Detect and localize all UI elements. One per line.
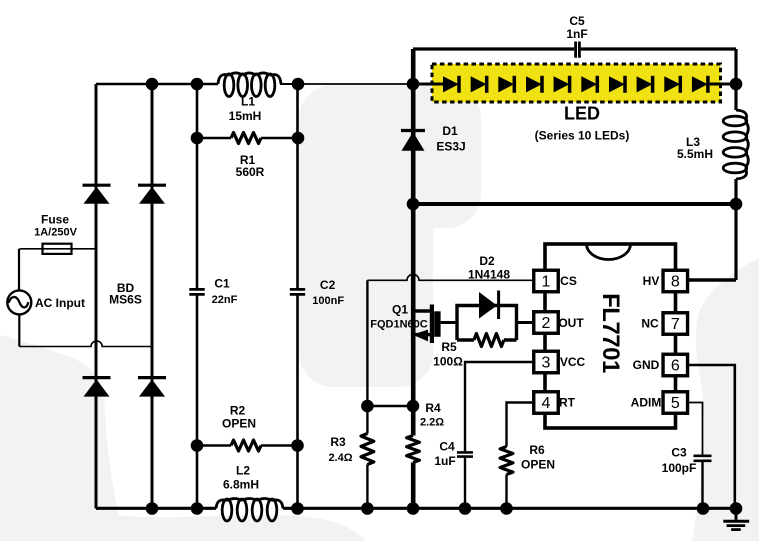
wire gate to D2/R5	[441, 321, 457, 324]
wire GND pin6 to ground	[688, 365, 735, 509]
node junction at 197,508.5	[191, 502, 204, 515]
svg-text:C2: C2	[320, 278, 336, 292]
resistor R2	[197, 444, 231, 447]
capacitor C4	[457, 452, 473, 456]
inductor L3	[723, 110, 748, 179]
svg-text:OUT: OUT	[558, 316, 584, 330]
svg-text:Q1: Q1	[392, 303, 408, 317]
node junction at 736,204	[730, 198, 743, 211]
wire mid rail y204	[413, 202, 736, 206]
svg-text:2: 2	[542, 315, 551, 332]
IC notch	[587, 244, 631, 260]
pin 4	[534, 392, 559, 414]
wire fuse line	[20, 248, 97, 250]
svg-text:D2: D2	[479, 254, 495, 268]
node junction at 506.5,508.5	[500, 502, 513, 515]
svg-text:R5: R5	[441, 340, 457, 354]
svg-text:R2: R2	[230, 404, 246, 418]
node junction at 297.5,508.5	[291, 502, 304, 515]
svg-text:1: 1	[542, 274, 551, 291]
svg-text:6: 6	[671, 358, 680, 375]
svg-text:OPEN: OPEN	[521, 458, 555, 472]
wire bridge right leg vertical	[151, 84, 154, 509]
wire OUT to pin2	[517, 321, 534, 324]
wire top rail	[96, 83, 218, 85]
node junction at 413,204	[407, 198, 420, 211]
D2/R5 parallel network box	[457, 306, 517, 341]
svg-text:VCC: VCC	[560, 355, 586, 369]
svg-text:ADIM: ADIM	[631, 396, 662, 410]
svg-text:L2: L2	[236, 464, 250, 478]
svg-text:100Ω: 100Ω	[433, 355, 463, 369]
inductor L1	[218, 73, 281, 97]
svg-text:3: 3	[542, 355, 551, 372]
svg-text:L1: L1	[241, 95, 255, 109]
svg-text:5: 5	[671, 395, 680, 412]
svg-text:AC Input: AC Input	[35, 296, 85, 310]
svg-text:C1: C1	[214, 277, 230, 291]
node junction at 736,84	[730, 78, 743, 91]
diode D2	[479, 291, 499, 320]
wire R3 to trunk	[367, 405, 413, 407]
resistor R4	[407, 436, 420, 463]
node junction at 413,84	[407, 78, 420, 91]
svg-text:NC: NC	[641, 317, 659, 331]
node junction at 152,84	[146, 78, 159, 91]
pin 7	[663, 313, 688, 335]
svg-text:RT: RT	[559, 396, 576, 410]
svg-text:D1: D1	[442, 124, 458, 138]
pin 8	[663, 270, 688, 292]
svg-text:22nF: 22nF	[212, 294, 238, 306]
capacitor C2	[290, 289, 305, 294]
LED string box	[432, 64, 721, 102]
bridge diode lower x=96.5	[83, 378, 111, 397]
wire L1 right stub	[280, 83, 298, 85]
svg-text:LED: LED	[564, 103, 600, 123]
svg-text:4: 4	[542, 395, 551, 412]
wire LED row	[413, 83, 736, 86]
svg-text:C4: C4	[439, 440, 455, 454]
wire C2 vertical	[296, 84, 299, 509]
diode D1	[401, 131, 425, 151]
svg-text:CS: CS	[560, 274, 577, 288]
node junction at 413,406	[407, 400, 420, 413]
capacitor C1	[189, 289, 204, 294]
resistor R1	[197, 137, 231, 140]
bridge diode upper x=152	[138, 185, 166, 204]
node junction at 465,508.5	[459, 502, 472, 515]
wire CS from pin1 with hop	[367, 274, 533, 280]
wire C5 top rail	[413, 47, 736, 50]
svg-text:5.5mH: 5.5mH	[677, 147, 713, 161]
ground	[723, 509, 749, 530]
node junction at 298,138	[292, 132, 305, 145]
svg-text:15mH: 15mH	[229, 109, 262, 123]
svg-text:(Series 10 LEDs): (Series 10 LEDs)	[535, 129, 630, 143]
wire bottom rail	[96, 507, 736, 510]
svg-text:2.4Ω: 2.4Ω	[328, 452, 352, 464]
node junction at 413,508.5	[407, 502, 420, 515]
LED diodes (10)	[443, 76, 708, 93]
svg-text:GND: GND	[633, 358, 660, 372]
node junction at 367.4,406	[361, 400, 374, 413]
svg-text:2.2Ω: 2.2Ω	[420, 417, 444, 429]
svg-text:100pF: 100pF	[662, 461, 697, 475]
wire RT pin4 to R6	[507, 403, 534, 447]
pin 2	[534, 312, 559, 334]
svg-text:ES3J: ES3J	[436, 140, 465, 154]
wire left vertical (bridge left leg)	[95, 84, 98, 509]
svg-text:1N4148: 1N4148	[468, 268, 510, 282]
resistor R3	[366, 280, 368, 433]
node junction at 297.5,445.5	[291, 439, 304, 452]
svg-text:R6: R6	[529, 443, 545, 457]
node junction at 298,84	[292, 78, 305, 91]
node junction at 367.4,508.5	[361, 502, 374, 515]
capacitor C3	[694, 456, 712, 461]
wire top rail to LED node	[298, 83, 413, 85]
svg-text:100nF: 100nF	[312, 295, 344, 307]
pin 3	[534, 351, 559, 373]
fuse 1A/250V	[43, 244, 72, 254]
wire VCC pin3 to C4	[465, 362, 533, 451]
svg-text:1nF: 1nF	[566, 27, 587, 41]
wire AC neutral vertical	[18, 314, 20, 346]
wire C1 vertical	[196, 84, 199, 509]
svg-text:6.8mH: 6.8mH	[223, 478, 259, 492]
svg-text:R4: R4	[425, 401, 441, 415]
pin 1	[534, 270, 559, 292]
inductor L2	[216, 499, 283, 522]
node junction at 197,138	[191, 132, 204, 145]
pin 5	[663, 392, 688, 414]
svg-text:HV: HV	[643, 274, 660, 288]
resistor R5	[474, 334, 504, 347]
op-amp U1 FL7701 body	[545, 244, 676, 428]
svg-text:560R: 560R	[236, 165, 265, 179]
wire AC neutral bottom with hop	[20, 341, 153, 347]
resistor R6	[500, 447, 513, 475]
svg-text:R3: R3	[330, 435, 346, 449]
pin 6	[663, 354, 688, 376]
svg-text:C3: C3	[671, 445, 687, 459]
bridge diode upper x=96.5	[83, 185, 111, 204]
bridge diode lower x=152	[138, 378, 166, 397]
svg-text:Fuse: Fuse	[41, 212, 69, 226]
svg-text:C5: C5	[569, 14, 585, 28]
wire AC live vertical	[18, 249, 20, 291]
svg-text:1A/250V: 1A/250V	[34, 226, 77, 238]
svg-text:MS6S: MS6S	[109, 293, 142, 307]
node junction at 736,508.5	[730, 502, 743, 515]
node junction at 703,508.5	[697, 502, 710, 515]
wire HV connection	[688, 278, 736, 281]
svg-text:OPEN: OPEN	[222, 417, 256, 431]
svg-text:FL7701: FL7701	[597, 293, 624, 373]
svg-text:7: 7	[671, 316, 680, 333]
capacitor C5	[576, 42, 580, 58]
wire right edge vertical	[734, 49, 737, 280]
node junction at 197,445.5	[191, 439, 204, 452]
svg-text:FQD1N60C: FQD1N60C	[370, 319, 428, 331]
node junction at 152,508.5	[146, 502, 159, 515]
svg-text:1uF: 1uF	[434, 454, 455, 468]
svg-text:8: 8	[671, 274, 680, 291]
transistor Q1	[413, 305, 441, 344]
node junction at 197,84	[191, 78, 204, 91]
wire ADIM pin5 to C3	[688, 403, 702, 455]
wire main trunk vertical	[411, 49, 416, 509]
AC source	[7, 290, 31, 314]
